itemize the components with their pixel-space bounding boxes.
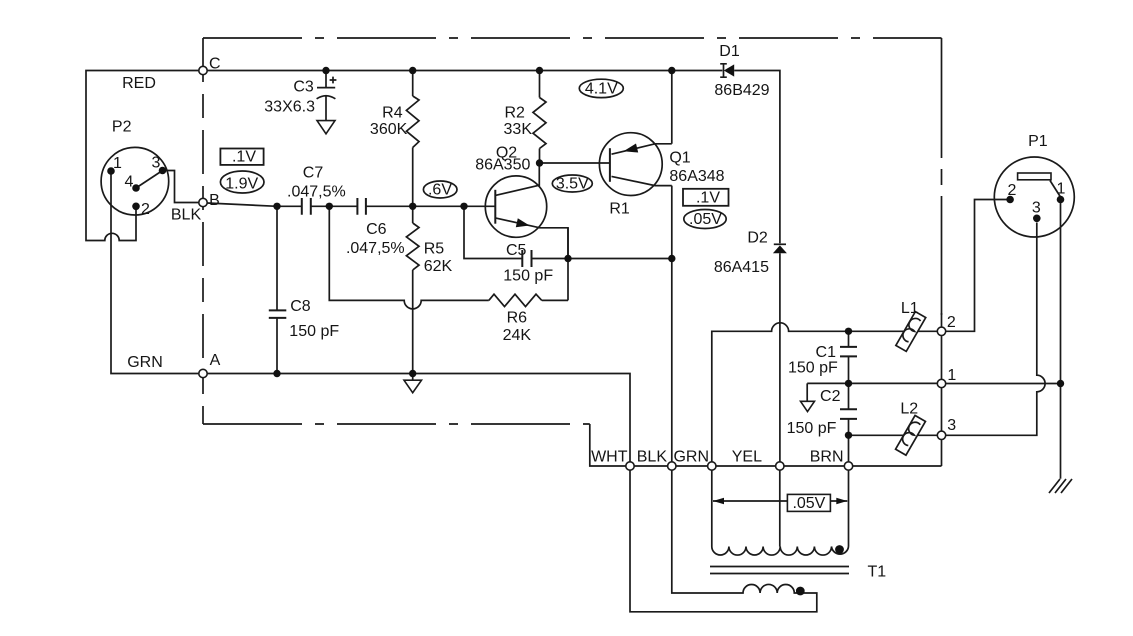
resistor R6 [489,294,542,344]
voltage label .05V ellipse at Q1 [684,210,726,229]
wire terminal 3 line [849,434,938,436]
inductor L2 [896,415,926,455]
svg-text:.05V: .05V [792,495,825,512]
svg-text:62K: 62K [424,258,453,275]
svg-text:.047,5%: .047,5% [346,240,405,257]
svg-text:150 pF: 150 pF [788,360,838,377]
voltage label .1V box at B [220,149,263,166]
svg-text:24K: 24K [503,327,532,344]
wire terminal 3 to P1 pin 3 with right-bulge hop [946,223,1045,436]
svg-text:3: 3 [947,417,956,434]
connector P2 [101,119,169,219]
svg-text:33X6.3: 33X6.3 [264,99,315,116]
svg-text:.047,5%: .047,5% [287,184,346,201]
earth ground at P1 pin1 [1049,479,1072,493]
module boundary right solid lower [941,313,943,466]
connector P1 [994,133,1074,237]
terminal 1 [937,379,945,387]
capacitor C7 [287,165,346,215]
wire top rail from node C to D1 [203,70,722,72]
voltage label .1V box at Q1 [683,189,729,207]
svg-text:C8: C8 [290,298,311,315]
wire node B line to Q2 base [207,203,495,206]
wire terminal 1 line with ground stub [807,383,937,401]
module boundary bottom-right corner to terminal row [590,424,942,466]
module boundary bottom dash-dot [203,423,590,425]
wire C1 stems [848,331,850,383]
svg-text:R2: R2 [504,105,525,122]
svg-text:GRN: GRN [673,449,709,466]
svg-text:R6: R6 [507,310,528,327]
wire RED shell path from node C to P2 with hop [86,71,199,241]
svg-text:T1: T1 [868,564,887,581]
wire Q1 emitter up to top rail [671,71,673,144]
svg-text:P2: P2 [112,119,132,136]
svg-text:P1: P1 [1028,133,1048,150]
svg-text:3.5V: 3.5V [556,176,589,193]
transformer T1 primary winding [712,547,849,556]
transformer T1 primary verticals GRN YEL BRN [712,470,849,546]
capacitor C1 [788,344,857,377]
module boundary right dash-dot [941,38,943,315]
svg-text:.6V: .6V [428,182,452,199]
svg-text:3: 3 [152,155,161,172]
transistor Q1 [540,133,725,218]
module boundary left dash-dot [202,38,204,424]
capacitor C8 [269,298,340,340]
svg-text:Q1: Q1 [669,150,690,167]
svg-text:.1V: .1V [232,149,256,166]
svg-text:C6: C6 [366,221,387,238]
transistor Q2 [475,145,568,259]
svg-text:C1: C1 [816,344,837,361]
wire R6 tap from C7/C6 junction with underpass hop [329,206,489,309]
node A [199,369,207,377]
wire C8 tap [276,206,278,373]
resistor R5 [406,206,452,373]
svg-text:.1V: .1V [696,189,720,206]
svg-text:B: B [209,192,220,209]
wire terminal 1 to P1 pin 1 junction [946,383,1061,385]
terminal WHT [626,462,634,470]
svg-text:D1: D1 [719,43,740,60]
svg-text:86A350: 86A350 [475,157,530,174]
node B [199,198,207,206]
capacitor C6 [346,198,405,257]
svg-text:GRN: GRN [127,354,163,371]
wire R6 right to C5 junction [542,228,568,301]
svg-text:D2: D2 [747,230,768,247]
svg-text:BLK: BLK [637,449,668,466]
wire top rail D1 to right corner down to D2 [734,71,780,244]
svg-text:YEL: YEL [732,449,762,466]
voltage label 3.5V ellipse [552,175,592,193]
wire node A line to WHT terminal [207,374,630,462]
inductor L1 [896,312,926,352]
voltage label 1.9V ellipse [220,171,264,193]
wire terminal 2 to P1 pin 2 [946,200,1010,332]
wire C5 left leg from base node [464,206,672,258]
transformer T1 secondary winding and wiring to BLK and WHT [630,470,817,612]
capacitor C3 electrolytic with ground [264,71,336,134]
svg-text:2: 2 [947,314,956,331]
resistor R2 [504,71,546,164]
capacitor C2 [787,388,857,437]
diode D1 [714,43,769,99]
dimension arrow .05V across primary [713,494,847,511]
svg-text:150 pF: 150 pF [503,268,553,285]
svg-text:C5: C5 [506,242,527,259]
node C [199,66,207,74]
svg-text:33K: 33K [504,121,533,138]
svg-text:4: 4 [125,174,134,191]
svg-text:150 pF: 150 pF [289,323,339,340]
transformer T1 polarity dot primary [835,545,844,554]
svg-text:86A348: 86A348 [669,168,724,185]
diode D2 [714,230,787,277]
svg-text:1.9V: 1.9V [225,176,258,193]
wire C2 stems down to BRN terminal [848,383,850,461]
junction dots [322,67,329,74]
wire P2 pin3 to node B [163,171,199,203]
svg-text:R5: R5 [424,241,445,258]
transformer T1 core lines [710,567,849,574]
svg-text:1: 1 [113,155,122,172]
transformer T1 polarity dot secondary [796,587,805,596]
terminal BLK [668,462,676,470]
resistor R4 [370,71,419,207]
svg-text:360K: 360K [370,121,408,138]
voltage label 4.1V ellipse [579,79,623,97]
ground at C2 [801,401,815,411]
svg-text:3: 3 [1032,200,1041,217]
wire Q1 collector down to BLK terminal [671,186,673,462]
svg-text:BRN: BRN [810,449,844,466]
svg-text:86B429: 86B429 [714,82,769,99]
terminal BRN [844,462,852,470]
svg-text:1: 1 [1056,181,1065,198]
wire P1 pin 1 down to earth ground [1060,200,1062,479]
svg-text:C7: C7 [303,165,324,182]
wire GRN terminal up and right to terminal 2 with hop over D2 line [712,323,938,462]
svg-text:4.1V: 4.1V [585,81,618,98]
ground at A line [404,374,422,393]
svg-text:C3: C3 [293,79,314,96]
svg-text:R4: R4 [382,105,403,122]
svg-text:.05V: .05V [689,211,722,228]
terminal 3 [937,431,945,439]
svg-text:C: C [209,56,221,73]
terminal 2 [937,327,945,335]
svg-text:86A415: 86A415 [714,259,769,276]
svg-text:A: A [210,352,221,369]
svg-text:BLK: BLK [171,207,202,224]
terminal GRN [708,462,716,470]
svg-text:WHT: WHT [591,449,628,466]
terminal YEL [776,462,784,470]
svg-text:2: 2 [1008,182,1017,199]
svg-text:L2: L2 [900,401,918,418]
voltage label .6V ellipse [423,181,457,199]
svg-text:C2: C2 [820,388,841,405]
svg-text:1: 1 [947,367,956,384]
svg-text:L1: L1 [901,300,919,317]
svg-text:RED: RED [122,75,156,92]
capacitor C5 [503,242,553,285]
svg-text:R1: R1 [609,201,630,218]
svg-text:2: 2 [141,201,150,218]
wire D2 down to YEL terminal [779,253,781,462]
wire GRN from P2 pin1 to node A [111,171,199,374]
module boundary top dash-dot [203,37,942,39]
svg-text:150 pF: 150 pF [787,420,837,437]
